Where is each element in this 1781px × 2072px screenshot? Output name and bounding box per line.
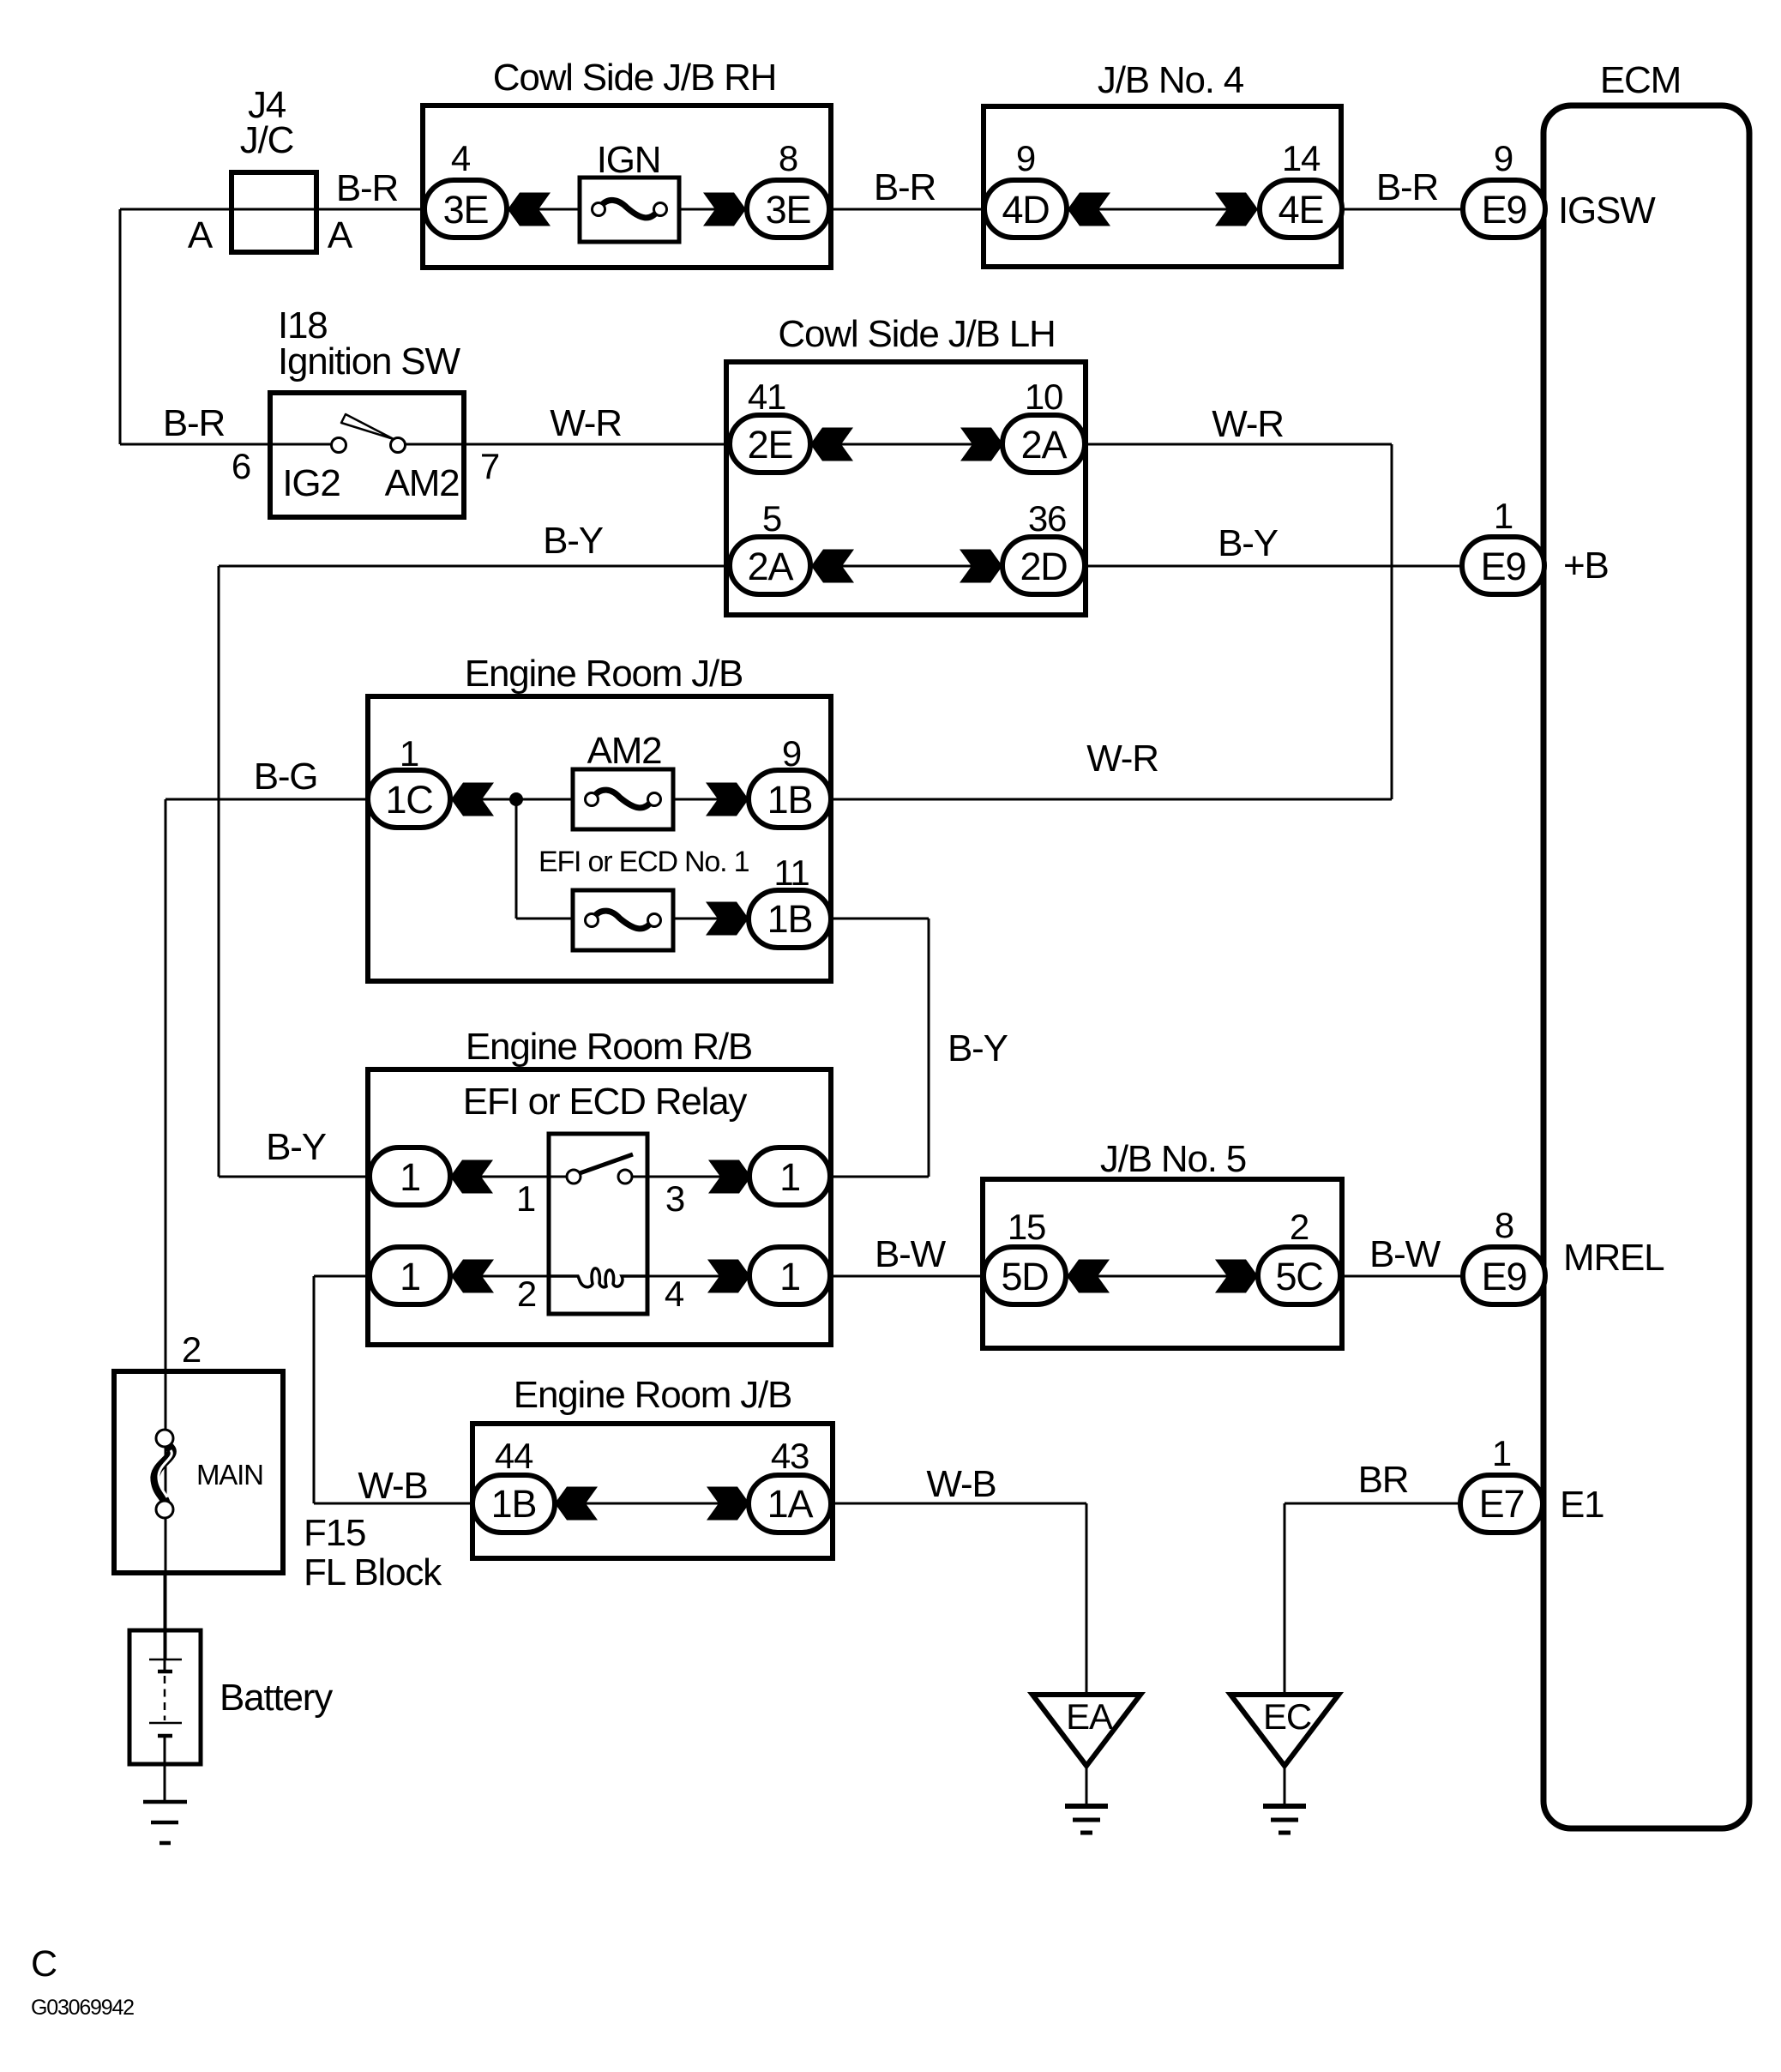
svg-text:B-Y: B-Y <box>543 520 604 562</box>
arrow out of AM2 fuse <box>706 783 749 816</box>
junction dot <box>509 792 523 806</box>
relay EFI or ECD inner box <box>549 1134 647 1314</box>
svg-text:C: C <box>31 1943 57 1985</box>
arrow out of EFI fuse <box>706 902 749 936</box>
svg-text:4E: 4E <box>1279 188 1324 232</box>
arrow into relay pin 2 <box>451 1260 494 1293</box>
svg-text:5D: 5D <box>1001 1255 1048 1298</box>
pin 10 label <box>1025 376 1062 417</box>
relay connector 1 top-right <box>749 1147 830 1205</box>
ECM terminal IGSW <box>1558 190 1656 232</box>
pin 1 label at 1C <box>400 733 418 774</box>
svg-text:AM2: AM2 <box>385 462 460 504</box>
junction block J/B No. 5 <box>983 1138 1342 1348</box>
connector 5C <box>1258 1247 1340 1304</box>
connector 4E <box>1260 180 1342 238</box>
svg-text:44: 44 <box>495 1436 533 1476</box>
pin 6 label <box>232 446 250 486</box>
arrow into relay pin 1 <box>450 1160 493 1194</box>
svg-text:E9: E9 <box>1482 188 1527 232</box>
ground: battery <box>143 1802 187 1843</box>
pin 11 label <box>773 852 809 893</box>
ignition switch contacts <box>332 414 406 453</box>
svg-text:8: 8 <box>1495 1205 1513 1245</box>
relay pin 2 label <box>517 1274 536 1314</box>
pin 9 label at 1B <box>782 733 801 774</box>
svg-text:8: 8 <box>779 138 797 178</box>
svg-text:EFI or ECD Relay: EFI or ECD Relay <box>463 1081 748 1123</box>
svg-text:MREL: MREL <box>1563 1237 1664 1279</box>
svg-text:1C: 1C <box>385 778 432 822</box>
svg-text:1: 1 <box>1492 1433 1511 1473</box>
arrow into 5D <box>1067 1260 1110 1293</box>
wire: relay switch row pins 1-3 <box>219 1176 929 1178</box>
svg-text:1: 1 <box>400 1255 420 1298</box>
svg-text:1: 1 <box>779 1155 800 1199</box>
svg-text:6: 6 <box>232 446 250 486</box>
svg-text:1: 1 <box>779 1255 800 1298</box>
label B-R between 3E and 4D <box>874 166 936 208</box>
arrow toward relay bottom-right 1 <box>707 1260 750 1293</box>
arrow toward 2A top <box>960 428 1003 461</box>
svg-text:E9: E9 <box>1482 1255 1527 1298</box>
connector E9 MREL <box>1463 1247 1545 1304</box>
label W-R right of 2A <box>1212 403 1284 445</box>
junction block Cowl Side J/B LH <box>726 313 1086 615</box>
connector 1B pin 9 <box>749 770 831 828</box>
wire B-Y: row to ECM +B pin 1 <box>219 565 1464 568</box>
fuse EFI or ECD No. 1 <box>573 890 673 950</box>
svg-text:B-R: B-R <box>1376 166 1438 208</box>
relay connector 1 bottom-right <box>749 1247 830 1304</box>
svg-text:1: 1 <box>400 1155 420 1199</box>
connector 1A <box>749 1475 831 1533</box>
svg-text:15: 15 <box>1008 1207 1045 1247</box>
wire W-R: vertical down to Engine Room J/B 1B pin 9 <box>1391 444 1393 799</box>
svg-text:B-G: B-G <box>254 756 318 798</box>
svg-text:B-Y: B-Y <box>948 1027 1008 1069</box>
label W-R after ignition switch <box>550 402 622 444</box>
wire B-R/W-R: ignition switch row <box>120 443 1392 446</box>
svg-text:3E: 3E <box>766 188 811 232</box>
ECM terminal MREL <box>1563 1237 1664 1279</box>
label B-Y left of 2A <box>543 520 604 562</box>
svg-text:Engine Room J/B: Engine Room J/B <box>465 653 743 695</box>
label F15 FL Block <box>304 1512 442 1593</box>
label B-R between 4E and E9 <box>1376 166 1438 208</box>
pin 1 label at E9 +B <box>1494 496 1513 536</box>
connector 3E right <box>747 180 829 238</box>
svg-text:9: 9 <box>1494 138 1513 178</box>
label W-B left <box>358 1465 427 1507</box>
arrow into 4D <box>1068 193 1110 226</box>
arrow toward relay right 1 <box>708 1160 751 1194</box>
svg-text:Engine Room R/B: Engine Room R/B <box>466 1026 752 1068</box>
svg-text:3: 3 <box>665 1178 684 1219</box>
ECM terminal +B <box>1563 545 1609 587</box>
ground: EC <box>1263 1806 1306 1833</box>
svg-text:36: 36 <box>1028 498 1066 539</box>
svg-text:5C: 5C <box>1275 1255 1322 1298</box>
svg-text:E9: E9 <box>1481 545 1526 588</box>
svg-text:2D: 2D <box>1020 545 1067 588</box>
svg-text:5: 5 <box>762 498 781 539</box>
svg-text:IG2: IG2 <box>282 462 340 504</box>
svg-text:2: 2 <box>182 1329 201 1370</box>
wire: vertical from node A down to ignition switch <box>119 209 122 444</box>
arrow into 3E <box>508 193 551 226</box>
svg-text:B-Y: B-Y <box>266 1126 327 1168</box>
arrow toward 4E <box>1215 193 1258 226</box>
connector 1B pin 44 <box>472 1475 555 1533</box>
svg-text:B-W: B-W <box>875 1233 947 1275</box>
svg-text:EA: EA <box>1066 1696 1113 1737</box>
pin 2 label at 5C <box>1290 1207 1309 1247</box>
arrow toward 2D <box>960 550 1002 583</box>
svg-text:Battery: Battery <box>220 1677 333 1719</box>
label W-B right <box>926 1463 996 1505</box>
arrow into 2A bottom <box>811 550 854 583</box>
svg-text:B-R: B-R <box>336 167 398 209</box>
svg-text:1A: 1A <box>767 1482 814 1526</box>
fuse IGN <box>580 139 679 242</box>
svg-text:Cowl Side J/B LH: Cowl Side J/B LH <box>778 313 1055 355</box>
relay connector 1 bottom-left <box>370 1247 450 1304</box>
svg-text:2A: 2A <box>748 545 794 588</box>
wire B-G: vertical down to MAIN fusible link and battery <box>165 799 167 1659</box>
connector 2A bottom <box>730 537 810 594</box>
connector 2E <box>730 415 810 473</box>
svg-text:FL Block: FL Block <box>304 1551 442 1593</box>
svg-text:W-R: W-R <box>1086 738 1158 780</box>
svg-text:Ignition SW: Ignition SW <box>278 340 460 382</box>
svg-text:B-W: B-W <box>1369 1233 1441 1275</box>
svg-text:Engine Room J/B: Engine Room J/B <box>514 1374 791 1416</box>
svg-text:9: 9 <box>782 733 801 774</box>
ground: EA <box>1065 1806 1108 1833</box>
wire W-B: vertical relay pin 2 down to W-B row <box>313 1276 316 1503</box>
label B-W between 5C and E9 <box>1369 1233 1441 1275</box>
pin 7 label <box>480 446 499 486</box>
svg-text:2E: 2E <box>748 423 793 467</box>
relay block Engine Room R/B <box>368 1026 831 1345</box>
svg-text:ECM: ECM <box>1600 59 1681 101</box>
terminal AM2 <box>385 462 460 504</box>
svg-text:2A: 2A <box>1021 423 1068 467</box>
svg-text:1B: 1B <box>767 897 813 941</box>
svg-text:2: 2 <box>1290 1207 1309 1247</box>
junction connector J4 J/C <box>232 84 316 252</box>
svg-text:4: 4 <box>451 138 471 178</box>
label BR <box>1358 1459 1409 1501</box>
connector 4D <box>984 180 1067 238</box>
label B-G <box>254 756 318 798</box>
relay title EFI or ECD Relay <box>463 1081 748 1123</box>
junction block Engine Room J/B <box>368 653 831 981</box>
pin 41 label <box>748 376 785 417</box>
connector E9 +B <box>1462 537 1544 594</box>
svg-text:W-B: W-B <box>926 1463 996 1505</box>
wire: EC apex to ground symbol <box>1284 1766 1286 1806</box>
junction block Engine Room J/B lower <box>472 1374 833 1558</box>
relay pin 1 label <box>516 1178 535 1219</box>
wire W-B: row to ground EA <box>314 1503 1086 1505</box>
svg-text:A: A <box>328 214 353 256</box>
connector E7 <box>1460 1475 1543 1533</box>
svg-text:10: 10 <box>1025 376 1062 417</box>
wire B-W: relay coil row to ECM MREL pin 8 <box>314 1275 1464 1278</box>
svg-text:1B: 1B <box>767 778 813 822</box>
pin 36 label <box>1028 498 1066 539</box>
svg-text:E7: E7 <box>1479 1482 1525 1526</box>
svg-text:G03069942: G03069942 <box>31 1996 134 2020</box>
node A right of J4 <box>328 214 353 256</box>
svg-text:3E: 3E <box>443 188 489 232</box>
label B-Y on vertical <box>948 1027 1008 1069</box>
junction block J/B No. 4 <box>984 59 1341 267</box>
svg-text:A: A <box>188 214 214 256</box>
svg-text:MAIN: MAIN <box>196 1459 263 1491</box>
pin 5 label <box>762 498 781 539</box>
label B-R at ignition switch <box>163 402 225 444</box>
relay coil <box>549 1268 647 1287</box>
wire B-Y: vertical from EFI fuse 1B pin 11 down to relay row <box>928 919 930 1177</box>
svg-text:J/C: J/C <box>240 119 294 161</box>
connector 1B pin 11 <box>749 890 831 948</box>
label B-Y right of 2D <box>1218 522 1279 564</box>
svg-text:BR: BR <box>1358 1459 1409 1501</box>
relay pin 4 label <box>665 1274 684 1314</box>
svg-text:1: 1 <box>400 733 418 774</box>
svg-text:+B: +B <box>1563 545 1609 587</box>
connector 5D <box>984 1247 1066 1304</box>
connector 1C <box>368 770 450 828</box>
svg-text:2: 2 <box>517 1274 536 1314</box>
svg-text:F15: F15 <box>304 1512 365 1554</box>
wire: junction to EFI fuse vertical <box>515 799 518 919</box>
ECM terminal E1 <box>1560 1484 1604 1526</box>
wire: vertical down to ground EA triangle <box>1086 1503 1088 1695</box>
wire: EFI or ECD No.1 fuse row <box>516 918 929 920</box>
label fuse EFI or ECD No. 1 <box>539 846 749 878</box>
wire B-R: node A through J4 to IGN fuse row and ECM IGSW pin 9 <box>120 208 1464 211</box>
terminal IG2 <box>282 462 340 504</box>
connector E9 IGSW <box>1463 180 1545 238</box>
fuse AM2 <box>573 730 673 829</box>
relay connector 1 top-left <box>370 1147 450 1205</box>
arrow out of IGN fuse <box>703 193 746 226</box>
svg-text:1B: 1B <box>491 1482 537 1526</box>
svg-text:J/B No. 5: J/B No. 5 <box>1100 1138 1246 1180</box>
pin 2 label above MAIN <box>182 1329 201 1370</box>
relay switch <box>567 1154 633 1184</box>
wire B-Y: vertical down to EFI relay pin 1 <box>218 566 220 1177</box>
pin 43 label <box>771 1436 809 1476</box>
svg-text:B-Y: B-Y <box>1218 522 1279 564</box>
pin 15 label <box>1008 1207 1045 1247</box>
pin 44 label <box>495 1436 533 1476</box>
pin 8 label at E9 MREL <box>1495 1205 1513 1245</box>
pin 8 label <box>779 138 797 178</box>
battery <box>129 1573 333 1802</box>
svg-text:Cowl Side J/B RH: Cowl Side J/B RH <box>493 57 776 99</box>
svg-text:IGSW: IGSW <box>1558 190 1656 232</box>
ground EC triangle <box>1230 1695 1339 1766</box>
pin 1 label at E7 <box>1492 1433 1511 1473</box>
wire BR: ground EC row to ECM E1 pin 1 <box>1285 1503 1460 1505</box>
component I18 Ignition SW <box>270 304 464 517</box>
label B-W between relay and 5D <box>875 1233 947 1275</box>
svg-text:IGN: IGN <box>597 139 661 181</box>
wire: vertical down to ground EC triangle <box>1284 1503 1286 1695</box>
node A left of J4 <box>188 214 214 256</box>
pin 9 label at E9 IGSW <box>1494 138 1513 178</box>
svg-text:14: 14 <box>1282 138 1321 178</box>
svg-text:EC: EC <box>1263 1696 1311 1737</box>
svg-text:9: 9 <box>1016 138 1035 178</box>
wire B-G/W-R: AM2 fuse row through Engine Room J/B <box>165 798 1392 801</box>
svg-text:W-R: W-R <box>1212 403 1284 445</box>
svg-text:7: 7 <box>480 446 499 486</box>
svg-text:E1: E1 <box>1560 1484 1604 1526</box>
svg-text:EFI or ECD No. 1: EFI or ECD No. 1 <box>539 846 749 878</box>
svg-text:J/B No. 4: J/B No. 4 <box>1098 59 1244 101</box>
svg-text:43: 43 <box>771 1436 809 1476</box>
svg-text:4: 4 <box>665 1274 684 1314</box>
label C <box>31 1943 57 1985</box>
label W-R right of 1B <box>1086 738 1158 780</box>
label B-Y at relay pin 1 <box>266 1126 327 1168</box>
arrow into 1C <box>451 783 494 816</box>
svg-text:1: 1 <box>1494 496 1513 536</box>
wire: EA apex to ground symbol <box>1086 1766 1088 1806</box>
svg-text:4D: 4D <box>1002 188 1049 232</box>
svg-text:1: 1 <box>516 1178 535 1219</box>
arrow into 2E <box>810 428 853 461</box>
svg-text:AM2: AM2 <box>587 730 662 772</box>
pin 4 label <box>451 138 471 178</box>
connector 3E left <box>424 180 507 238</box>
arrow toward 5C <box>1215 1260 1258 1293</box>
pin 9 label at 4D <box>1016 138 1035 178</box>
ground EA triangle <box>1032 1695 1140 1766</box>
arrow into 1B 44 <box>555 1487 598 1521</box>
svg-text:W-B: W-B <box>358 1465 427 1507</box>
svg-text:B-R: B-R <box>163 402 225 444</box>
svg-text:W-R: W-R <box>550 402 622 444</box>
connector 2D <box>1002 537 1085 594</box>
label B-R at J4 <box>336 167 398 209</box>
arrow toward 1A <box>707 1487 749 1521</box>
relay pin 3 label <box>665 1178 684 1219</box>
label G03069942 <box>31 1996 134 2020</box>
svg-text:11: 11 <box>773 852 809 893</box>
junction block Cowl Side J/B RH <box>423 57 831 268</box>
connector 2A top <box>1002 415 1085 473</box>
svg-text:B-R: B-R <box>874 166 936 208</box>
fusible link MAIN F15 <box>114 1371 283 1573</box>
pin 14 label <box>1282 138 1321 178</box>
svg-text:41: 41 <box>748 376 785 417</box>
ECM connector block <box>1543 59 1749 1828</box>
